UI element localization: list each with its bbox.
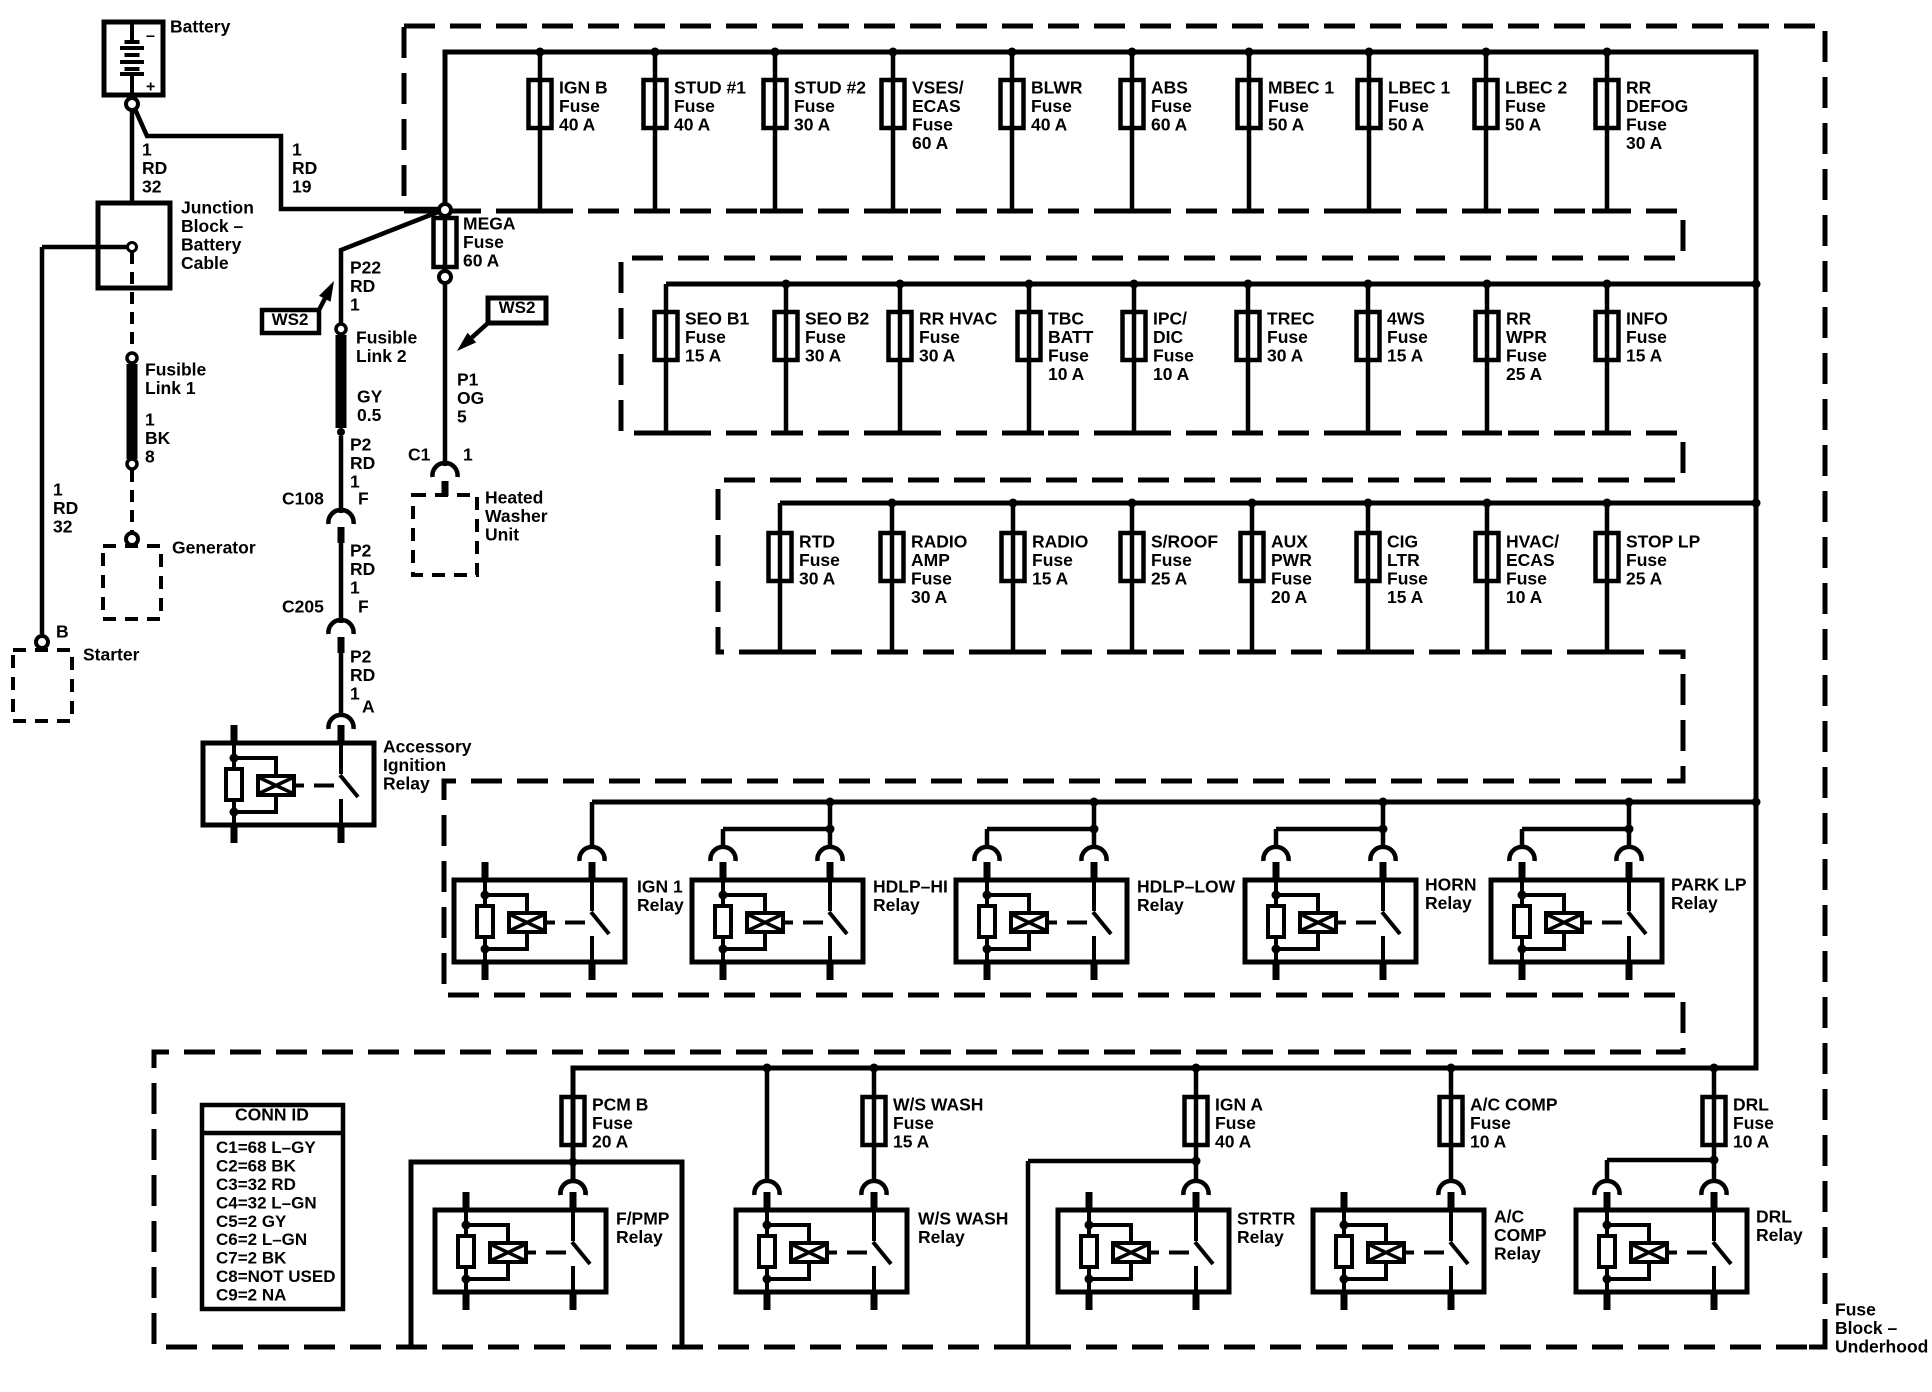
svg-text:40 A: 40 A [559,115,596,135]
svg-text:RD: RD [350,559,375,579]
svg-text:RD: RD [350,453,375,473]
svg-text:10 A: 10 A [1733,1132,1770,1152]
svg-text:LBEC 2: LBEC 2 [1505,78,1568,98]
svg-text:Battery: Battery [181,235,242,255]
svg-text:50 A: 50 A [1388,115,1425,135]
svg-text:Fuse: Fuse [1506,569,1547,589]
svg-text:RADIO: RADIO [911,532,967,552]
svg-text:4WS: 4WS [1387,309,1425,329]
svg-text:IGN B: IGN B [559,78,608,98]
svg-text:30 A: 30 A [794,115,831,135]
svg-text:Fuse: Fuse [1626,327,1667,347]
svg-text:1: 1 [463,445,473,465]
svg-text:C108: C108 [282,489,324,509]
svg-text:Fuse: Fuse [794,96,835,116]
svg-text:Fuse: Fuse [1151,96,1192,116]
svg-text:40 A: 40 A [1215,1132,1252,1152]
svg-text:C9=2 NA: C9=2 NA [216,1285,286,1304]
svg-text:Fuse: Fuse [559,96,600,116]
svg-text:F: F [358,489,369,509]
svg-text:Fuse: Fuse [805,327,846,347]
svg-text:CIG: CIG [1387,532,1418,552]
svg-text:MBEC 1: MBEC 1 [1268,78,1334,98]
svg-text:1: 1 [145,410,155,430]
svg-text:Ignition: Ignition [383,755,446,775]
svg-text:C2=68 BK: C2=68 BK [216,1157,297,1176]
svg-text:Fuse: Fuse [463,232,504,252]
svg-text:ECAS: ECAS [1506,550,1555,570]
svg-text:60 A: 60 A [912,133,949,153]
svg-text:STOP LP: STOP LP [1626,532,1701,552]
svg-text:LTR: LTR [1387,550,1420,570]
svg-text:Relay: Relay [1425,893,1472,913]
svg-text:RADIO: RADIO [1032,532,1088,552]
svg-text:Relay: Relay [637,895,684,915]
svg-text:30 A: 30 A [1626,133,1663,153]
svg-text:LBEC 1: LBEC 1 [1388,78,1451,98]
svg-text:VSES/: VSES/ [912,78,964,98]
svg-text:C1=68 L–GY: C1=68 L–GY [216,1138,316,1157]
svg-text:Fuse: Fuse [1048,346,1089,366]
svg-text:8: 8 [145,447,155,467]
svg-text:PCM B: PCM B [592,1095,648,1115]
svg-text:F: F [358,597,369,617]
svg-text:A: A [362,697,375,717]
svg-text:INFO: INFO [1626,309,1668,329]
svg-text:25 A: 25 A [1506,364,1543,384]
svg-text:RR: RR [1626,78,1652,98]
svg-text:Generator: Generator [172,538,256,558]
svg-text:15 A: 15 A [1626,346,1663,366]
svg-text:A/C COMP: A/C COMP [1470,1095,1558,1115]
svg-text:Fuse: Fuse [1733,1113,1774,1133]
svg-text:W/S WASH: W/S WASH [893,1095,983,1115]
svg-text:Block –: Block – [181,216,244,236]
svg-text:10 A: 10 A [1506,587,1543,607]
svg-text:32: 32 [142,177,162,197]
svg-text:Fuse: Fuse [911,569,952,589]
svg-text:Relay: Relay [1494,1244,1541,1264]
svg-text:Fuse: Fuse [592,1113,633,1133]
svg-text:40 A: 40 A [1031,115,1068,135]
svg-text:30 A: 30 A [799,569,836,589]
svg-text:BATT: BATT [1048,327,1094,347]
svg-text:10 A: 10 A [1048,364,1085,384]
svg-text:25 A: 25 A [1151,569,1188,589]
svg-text:Fuse: Fuse [1387,569,1428,589]
svg-text:P2: P2 [350,435,372,455]
svg-text:Battery: Battery [170,17,231,37]
svg-text:Link 2: Link 2 [356,346,407,366]
svg-text:Fuse: Fuse [1032,550,1073,570]
svg-text:Fuse: Fuse [1835,1300,1876,1320]
svg-text:1: 1 [350,295,360,315]
svg-text:30 A: 30 A [1267,346,1304,366]
svg-text:1: 1 [142,140,152,160]
svg-text:5: 5 [457,407,467,427]
svg-text:HORN: HORN [1425,875,1477,895]
svg-text:IGN 1: IGN 1 [637,877,683,897]
svg-text:50 A: 50 A [1268,115,1305,135]
svg-text:OG: OG [457,388,484,408]
svg-text:Junction: Junction [181,198,254,218]
svg-text:Accessory: Accessory [383,737,472,757]
svg-text:–: – [146,28,155,45]
svg-text:19: 19 [292,177,312,197]
svg-text:Relay: Relay [616,1227,663,1247]
svg-text:Heated: Heated [485,488,543,508]
svg-text:HVAC/: HVAC/ [1506,532,1559,552]
svg-text:Relay: Relay [873,895,920,915]
svg-text:STRTR: STRTR [1237,1209,1296,1229]
svg-text:TBC: TBC [1048,309,1084,329]
svg-text:Fuse: Fuse [685,327,726,347]
svg-text:BK: BK [145,428,171,448]
svg-text:10 A: 10 A [1153,364,1190,384]
svg-text:RD: RD [350,665,375,685]
svg-text:Starter: Starter [83,645,140,665]
svg-text:COMP: COMP [1494,1225,1547,1245]
svg-text:C5=2 GY: C5=2 GY [216,1212,287,1231]
svg-text:25 A: 25 A [1626,569,1663,589]
svg-text:C205: C205 [282,597,324,617]
svg-text:Relay: Relay [383,774,430,794]
svg-text:1: 1 [350,578,360,598]
svg-text:C3=32 RD: C3=32 RD [216,1175,296,1194]
svg-text:Fuse: Fuse [1470,1113,1511,1133]
svg-text:PWR: PWR [1271,550,1312,570]
svg-text:W/S WASH: W/S WASH [918,1209,1008,1229]
svg-text:BLWR: BLWR [1031,78,1083,98]
svg-text:GY: GY [357,387,383,407]
svg-text:15 A: 15 A [893,1132,930,1152]
svg-text:F/PMP: F/PMP [616,1209,670,1229]
svg-text:A/C: A/C [1494,1207,1525,1227]
svg-text:Fuse: Fuse [1031,96,1072,116]
svg-text:C8=NOT USED: C8=NOT USED [216,1267,336,1286]
svg-text:Link 1: Link 1 [145,378,196,398]
svg-text:32: 32 [53,517,73,537]
svg-text:Fuse: Fuse [1151,550,1192,570]
svg-text:20 A: 20 A [1271,587,1308,607]
svg-text:DEFOG: DEFOG [1626,96,1688,116]
svg-text:Washer: Washer [485,506,548,526]
svg-text:RD: RD [350,276,375,296]
svg-text:15 A: 15 A [1387,587,1424,607]
svg-text:30 A: 30 A [911,587,948,607]
svg-text:Fuse: Fuse [1267,327,1308,347]
svg-text:1: 1 [53,480,63,500]
svg-text:Fuse: Fuse [1626,115,1667,135]
svg-text:P2: P2 [350,647,372,667]
svg-text:15 A: 15 A [1387,346,1424,366]
svg-text:TREC: TREC [1267,309,1315,329]
svg-text:DIC: DIC [1153,327,1184,347]
svg-text:C6=2 L–GN: C6=2 L–GN [216,1230,307,1249]
svg-text:Fuse: Fuse [1626,550,1667,570]
svg-text:Fuse: Fuse [1153,346,1194,366]
svg-text:RR: RR [1506,309,1532,329]
svg-text:1: 1 [292,140,302,160]
svg-text:HDLP–LOW: HDLP–LOW [1137,877,1236,897]
svg-text:RR HVAC: RR HVAC [919,309,998,329]
svg-text:C1: C1 [408,445,431,465]
svg-text:P1: P1 [457,370,479,390]
svg-text:Cable: Cable [181,253,229,273]
svg-text:Fuse: Fuse [1387,327,1428,347]
svg-text:AUX: AUX [1271,532,1308,552]
svg-text:S/ROOF: S/ROOF [1151,532,1218,552]
svg-text:STUD #1: STUD #1 [674,78,746,98]
svg-text:Fuse: Fuse [1268,96,1309,116]
svg-text:60 A: 60 A [463,251,500,271]
svg-text:50 A: 50 A [1505,115,1542,135]
svg-text:RD: RD [142,158,167,178]
svg-text:PARK LP: PARK LP [1671,875,1747,895]
svg-text:Fuse: Fuse [912,115,953,135]
svg-text:10 A: 10 A [1470,1132,1507,1152]
svg-text:15 A: 15 A [1032,569,1069,589]
svg-text:SEO B1: SEO B1 [685,309,749,329]
svg-text:Fuse: Fuse [1215,1113,1256,1133]
svg-text:WPR: WPR [1506,327,1547,347]
svg-text:Fusible: Fusible [145,360,207,380]
svg-text:Fuse: Fuse [799,550,840,570]
svg-text:15 A: 15 A [685,346,722,366]
svg-text:Fuse: Fuse [674,96,715,116]
svg-text:STUD #2: STUD #2 [794,78,866,98]
svg-text:RD: RD [53,498,78,518]
svg-text:IGN A: IGN A [1215,1095,1263,1115]
svg-text:Unit: Unit [485,525,519,545]
svg-text:WS2: WS2 [272,310,309,329]
svg-text:Fuse: Fuse [1388,96,1429,116]
svg-text:RD: RD [292,158,317,178]
svg-text:P2: P2 [350,541,372,561]
svg-text:AMP: AMP [911,550,950,570]
svg-text:IPC/: IPC/ [1153,309,1187,329]
svg-text:30 A: 30 A [805,346,842,366]
svg-text:B: B [56,622,69,642]
svg-text:DRL: DRL [1756,1207,1792,1227]
svg-text:Fusible: Fusible [356,328,418,348]
svg-text:Fuse: Fuse [1505,96,1546,116]
svg-text:30 A: 30 A [919,346,956,366]
svg-text:Relay: Relay [1237,1227,1284,1247]
svg-text:0.5: 0.5 [357,405,382,425]
svg-text:Block –: Block – [1835,1318,1898,1338]
svg-text:C7=2 BK: C7=2 BK [216,1249,287,1268]
svg-text:Relay: Relay [1137,895,1184,915]
svg-text:Fuse: Fuse [1271,569,1312,589]
svg-text:Relay: Relay [918,1227,965,1247]
svg-text:Fuse: Fuse [919,327,960,347]
svg-text:WS2: WS2 [499,298,536,317]
svg-text:MEGA: MEGA [463,214,516,234]
svg-text:Underhood: Underhood [1835,1337,1928,1357]
svg-text:DRL: DRL [1733,1095,1769,1115]
svg-text:Relay: Relay [1756,1225,1803,1245]
svg-text:20 A: 20 A [592,1132,629,1152]
svg-text:SEO B2: SEO B2 [805,309,869,329]
svg-text:40 A: 40 A [674,115,711,135]
svg-text:P22: P22 [350,258,381,278]
svg-text:C4=32 L–GN: C4=32 L–GN [216,1193,317,1212]
svg-text:Fuse: Fuse [1506,346,1547,366]
svg-text:Fuse: Fuse [893,1113,934,1133]
svg-text:CONN ID: CONN ID [235,1105,309,1125]
svg-text:Relay: Relay [1671,893,1718,913]
svg-text:1: 1 [350,684,360,704]
svg-text:60 A: 60 A [1151,115,1188,135]
svg-text:ABS: ABS [1151,78,1188,98]
svg-text:HDLP–HI: HDLP–HI [873,877,948,897]
svg-text:+: + [146,79,155,96]
svg-text:ECAS: ECAS [912,96,961,116]
svg-text:RTD: RTD [799,532,835,552]
